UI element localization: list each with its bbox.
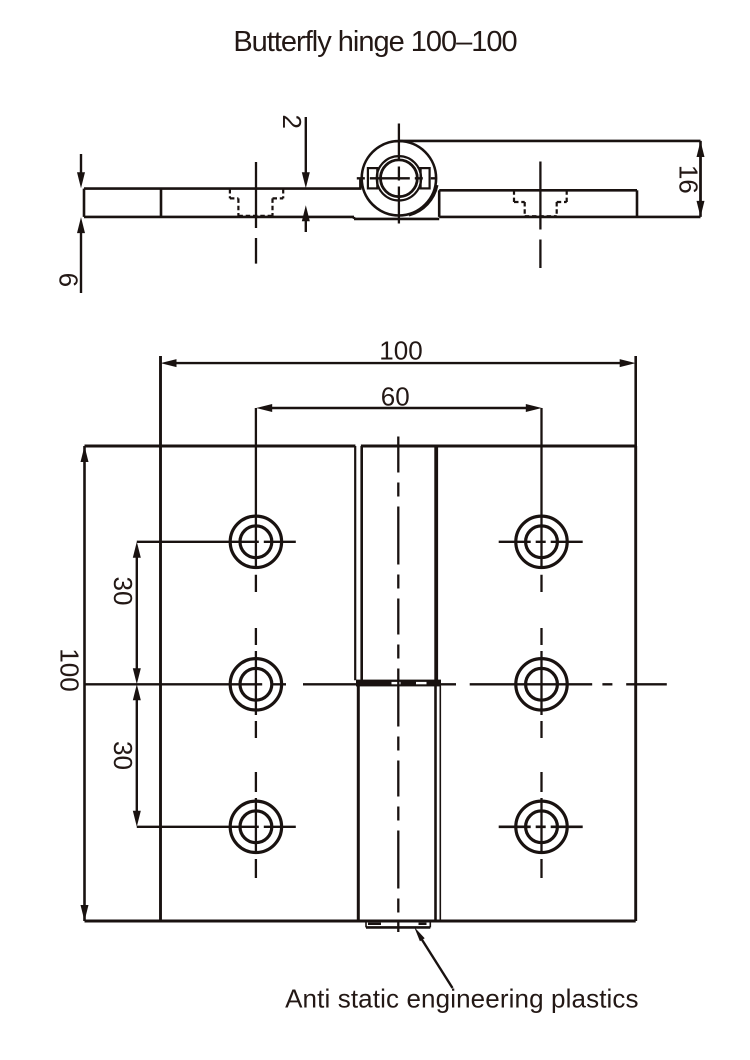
svg-text:30: 30: [108, 577, 138, 606]
svg-text:60: 60: [381, 381, 410, 411]
svg-text:100: 100: [379, 336, 422, 366]
svg-text:6: 6: [54, 273, 84, 287]
svg-text:2: 2: [277, 114, 307, 128]
svg-text:16: 16: [674, 165, 704, 194]
svg-text:30: 30: [108, 741, 138, 770]
svg-text:Butterfly hinge 100–100: Butterfly hinge 100–100: [233, 26, 516, 58]
svg-text:Anti static engineering plasti: Anti static engineering plastics: [285, 984, 639, 1014]
svg-text:100: 100: [55, 648, 85, 691]
